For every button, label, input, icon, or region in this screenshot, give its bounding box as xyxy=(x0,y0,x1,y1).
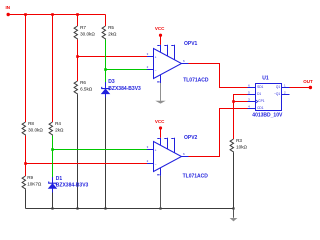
svg-text:10kΩ: 10kΩ xyxy=(236,144,247,149)
junction CP1/R3 xyxy=(232,100,235,103)
wire green node to OPV2 noninverting input xyxy=(53,149,148,151)
wire D1 to ground rail xyxy=(52,193,54,209)
wire R7 bottom lead xyxy=(77,40,79,57)
svg-text:+: + xyxy=(155,55,157,59)
svg-text:SD1: SD1 xyxy=(257,85,263,89)
svg-text:R5: R5 xyxy=(108,25,114,30)
svg-text:OUT: OUT xyxy=(303,79,313,84)
wire node to OPV1 noninverting input xyxy=(78,56,148,58)
wire R5 top lead xyxy=(105,15,107,27)
ground arrow right xyxy=(230,218,238,221)
svg-text:VCC: VCC xyxy=(155,26,165,31)
wire OPV2 VEE to ground rail xyxy=(160,176,162,209)
svg-text:R9: R9 xyxy=(27,175,33,180)
op-amp OPV2 TL071ACD xyxy=(147,138,189,176)
svg-text:R4: R4 xyxy=(55,121,61,126)
svg-text:BZX384-B3V3: BZX384-B3V3 xyxy=(56,183,89,189)
wire column to R4 xyxy=(52,15,54,123)
junction top rail B xyxy=(51,13,54,16)
wire R7 top lead xyxy=(77,15,79,27)
diode D1 anode lead xyxy=(52,188,54,192)
wire OPV2 output to CD1 xyxy=(189,109,248,157)
svg-text:D1: D1 xyxy=(56,176,63,182)
junction green node D1 xyxy=(51,148,54,151)
svg-text:OPV2: OPV2 xyxy=(184,135,198,141)
junction rail D3 xyxy=(104,207,106,209)
wire green node to D3 xyxy=(105,70,107,83)
diode D3 anode lead xyxy=(105,94,107,98)
wire green node to D1 xyxy=(52,150,54,178)
resistor R4 xyxy=(49,122,52,136)
svg-text:30.0kΩ: 30.0kΩ xyxy=(28,127,43,132)
wire R3 bottom to ground rail xyxy=(233,153,235,209)
junction rail R6 xyxy=(76,207,78,209)
wire D3 to ground rail xyxy=(105,98,107,209)
junction top rail A xyxy=(24,13,27,16)
resistor R8 xyxy=(22,122,25,136)
wire R8 bottom lead xyxy=(25,136,27,164)
svg-text:BZX384-B3V3: BZX384-B3V3 xyxy=(108,86,141,92)
resistor R6 xyxy=(74,81,77,95)
svg-text:R6: R6 xyxy=(80,80,86,85)
wire node to OPV2 inverting input xyxy=(26,163,148,165)
wire R4 bottom green lead xyxy=(52,136,54,150)
svg-text:VCC: VCC xyxy=(155,119,165,124)
wire R6 bottom to ground rail xyxy=(77,95,79,209)
resistor R3 xyxy=(230,139,233,153)
diode D1 BZX384-B3V3 xyxy=(49,182,57,189)
diode D3 BZX384-B3V3 xyxy=(102,87,110,94)
diode D1 cathode lead xyxy=(52,177,54,183)
svg-text:R3: R3 xyxy=(236,138,242,143)
flip-flop U1 4013BD xyxy=(248,84,290,111)
svg-text:CD1: CD1 xyxy=(257,106,264,110)
diode D3 cathode lead xyxy=(105,82,107,89)
svg-text:U1: U1 xyxy=(262,76,269,82)
svg-text:CP1: CP1 xyxy=(258,99,264,103)
svg-text:+: + xyxy=(155,148,157,152)
wire net D1 pin to R3 xyxy=(234,95,248,140)
resistor R9 xyxy=(22,176,25,190)
svg-text:D3: D3 xyxy=(108,79,115,85)
ground arrow OPV1 xyxy=(160,83,162,101)
svg-text:IN: IN xyxy=(6,5,11,10)
op-amp OPV1 TL071ACD xyxy=(147,45,189,83)
svg-text:TL071ACD: TL071ACD xyxy=(183,77,209,83)
wire Q1 to OUT xyxy=(290,87,311,89)
svg-text:OPV1: OPV1 xyxy=(184,41,198,47)
wire R6 top lead xyxy=(77,57,79,82)
junction green node D3 xyxy=(104,68,107,71)
wire top rail xyxy=(8,14,105,16)
wire R9 bottom to ground rail xyxy=(25,190,27,209)
svg-text:−: − xyxy=(155,68,157,72)
node OUT pin dot xyxy=(309,86,312,89)
svg-text:TL071ACD: TL071ACD xyxy=(183,173,209,179)
svg-text:−: − xyxy=(155,162,157,166)
svg-text:2kΩ: 2kΩ xyxy=(55,127,64,132)
junction top rail C xyxy=(76,13,79,16)
resistor R7 xyxy=(74,26,77,40)
ground rail xyxy=(26,208,234,210)
junction rail D1 xyxy=(51,207,53,209)
svg-text:D1: D1 xyxy=(257,92,261,96)
junction rail OPV2 xyxy=(159,207,161,209)
junction node R8/R9 xyxy=(24,162,27,165)
svg-text:R7: R7 xyxy=(80,25,86,30)
wire green node to OPV1 inverting input xyxy=(106,69,148,71)
svg-text:~Q1: ~Q1 xyxy=(274,92,280,96)
junction node R7/R6 xyxy=(76,55,79,58)
wire R5 bottom green lead xyxy=(105,40,107,70)
wire column to R8 xyxy=(25,15,27,123)
svg-text:30.0kΩ: 30.0kΩ xyxy=(80,31,95,36)
resistor R5 xyxy=(102,26,105,40)
svg-text:6.5kΩ: 6.5kΩ xyxy=(80,86,93,91)
svg-text:4013BD_10V: 4013BD_10V xyxy=(252,112,283,118)
junction rail R3 xyxy=(232,207,234,209)
node IN pin dot xyxy=(7,13,10,16)
wire OPV1 output to SD1 xyxy=(189,64,248,88)
wire CP1 branch xyxy=(234,101,248,103)
svg-text:R8: R8 xyxy=(28,121,34,126)
svg-text:Q1: Q1 xyxy=(276,85,280,89)
wire R9 top lead xyxy=(25,164,27,177)
svg-text:10K7Ω: 10K7Ω xyxy=(27,181,42,186)
svg-text:2kΩ: 2kΩ xyxy=(108,31,117,36)
ground arrow stem right xyxy=(233,209,235,218)
